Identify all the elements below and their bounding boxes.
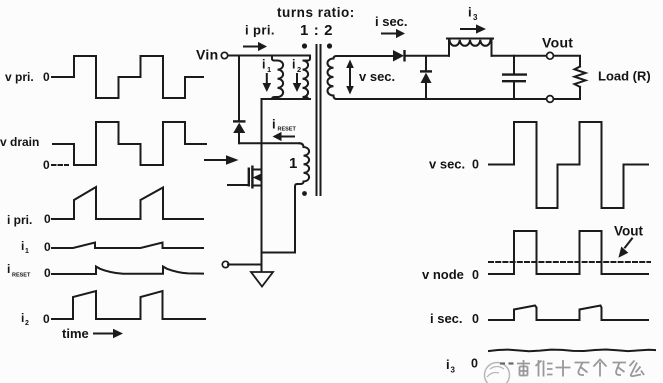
i1 arrow	[266, 74, 268, 83]
svg-text:0: 0	[43, 312, 50, 326]
svg-text:2: 2	[25, 320, 29, 327]
wire return rail	[228, 264, 262, 266]
i pri. arrow	[244, 46, 258, 48]
primary winding Np (i1 coil)	[272, 56, 283, 100]
svg-text:v drain: v drain	[0, 135, 39, 149]
svg-text:0: 0	[471, 357, 478, 371]
svg-text:i: i	[468, 5, 472, 20]
waveform i2 trace	[52, 291, 205, 319]
wire reset (diode anode to reset winding)	[239, 142, 300, 144]
svg-text:0: 0	[44, 212, 51, 226]
svg-text:v sec.: v sec.	[359, 69, 395, 84]
iRESET arrow	[281, 136, 294, 138]
v sec. arrow double head	[349, 66, 351, 88]
wire to load	[554, 56, 581, 67]
svg-text:Vout: Vout	[542, 35, 573, 51]
svg-text:i: i	[7, 262, 10, 276]
svg-text:i: i	[21, 311, 24, 325]
svg-text:3: 3	[451, 366, 456, 375]
watermark dashes	[500, 362, 514, 364]
resistor R load	[575, 67, 586, 87]
phase dot secondary	[327, 43, 332, 48]
wire secondary top rail	[337, 55, 394, 57]
svg-text:2: 2	[297, 65, 301, 74]
terminal Vout+	[547, 52, 554, 59]
wire drain vertical	[261, 99, 263, 170]
svg-text:1: 1	[267, 65, 271, 74]
primary winding reset branch (i2 coil)	[303, 56, 311, 100]
svg-text:1 : 2: 1 : 2	[300, 22, 333, 39]
Vout arrow	[625, 239, 632, 248]
diode D2 freewheel	[425, 56, 427, 71]
wire top rail primary	[228, 55, 310, 57]
terminal return	[222, 261, 228, 267]
inductor L1 output choke	[448, 40, 450, 56]
svg-text:1: 1	[289, 155, 297, 172]
waveform i1 trace	[52, 243, 203, 249]
svg-text:RESET: RESET	[278, 127, 297, 133]
svg-text:0: 0	[44, 240, 51, 254]
waveform v drain zero dashes	[52, 164, 68, 166]
svg-text:RESET: RESET	[12, 273, 31, 279]
waveform v pri. trace	[52, 56, 203, 98]
svg-text:i sec.: i sec.	[430, 311, 463, 326]
phase dot reset winding	[302, 191, 307, 196]
wire primary bottom bus	[262, 98, 311, 100]
svg-text:Vin: Vin	[196, 47, 218, 63]
secondary winding Ns	[327, 56, 336, 99]
wire load bottom	[554, 87, 581, 99]
svg-text:v sec.: v sec.	[429, 157, 465, 172]
transistor Q1 MOSFET	[228, 184, 249, 186]
watermark logo circle	[485, 363, 510, 383]
waveform v drain trace	[53, 122, 206, 165]
waveform iRESET trace	[52, 267, 203, 275]
svg-text:time: time	[62, 326, 89, 341]
phase dot primary	[302, 43, 307, 48]
ground	[251, 272, 273, 287]
svg-text:0: 0	[472, 268, 479, 282]
svg-text:3: 3	[473, 13, 478, 22]
svg-text:v node: v node	[422, 267, 464, 282]
waveform v sec. trace	[489, 122, 648, 208]
waveform i pri. trace	[52, 187, 203, 219]
svg-text:i: i	[262, 58, 265, 72]
svg-text:v pri.: v pri.	[5, 70, 34, 84]
svg-text:1: 1	[25, 248, 29, 255]
svg-text:i pri.: i pri.	[245, 23, 275, 38]
svg-text:0: 0	[43, 70, 50, 84]
svg-text:i: i	[272, 117, 276, 132]
svg-text:Vout: Vout	[614, 224, 643, 239]
terminal Vin	[221, 52, 227, 58]
transformer core	[316, 45, 318, 195]
svg-text:0: 0	[43, 158, 50, 172]
wire secondary bottom rail	[337, 98, 547, 100]
waveform v node trace	[489, 231, 648, 274]
svg-text:i sec.: i sec.	[375, 14, 408, 29]
reset winding coil	[295, 143, 309, 252]
svg-text:turns ratio:: turns ratio:	[277, 5, 355, 20]
svg-text:0: 0	[472, 158, 479, 172]
time axis arrow	[94, 333, 113, 335]
wire output rail	[492, 55, 547, 57]
i sec. arrow	[382, 33, 396, 35]
svg-text:0: 0	[472, 312, 479, 326]
svg-text:i: i	[446, 357, 450, 372]
svg-text:0: 0	[44, 266, 51, 280]
terminal Vout-	[547, 96, 554, 103]
svg-text:i: i	[292, 58, 295, 72]
Vout dashed level line	[489, 261, 650, 263]
waveform i sec. trace	[489, 306, 648, 321]
waveform i3 ripple trace	[489, 350, 655, 352]
watermark text (stylized CJK strokes)	[517, 360, 644, 377]
svg-text:Load (R): Load (R)	[598, 69, 651, 84]
gate drive arrow	[205, 159, 226, 161]
i3 arrow	[461, 28, 476, 30]
svg-text:i pri.: i pri.	[7, 213, 32, 227]
svg-text:i: i	[21, 239, 24, 253]
diode D1 rectifier	[393, 50, 404, 62]
wire reset return	[262, 252, 296, 254]
wire source vertical	[261, 186, 263, 273]
i2 arrow	[296, 74, 298, 83]
diode D3 reset clamp	[238, 56, 240, 122]
capacitor C1	[513, 56, 515, 74]
